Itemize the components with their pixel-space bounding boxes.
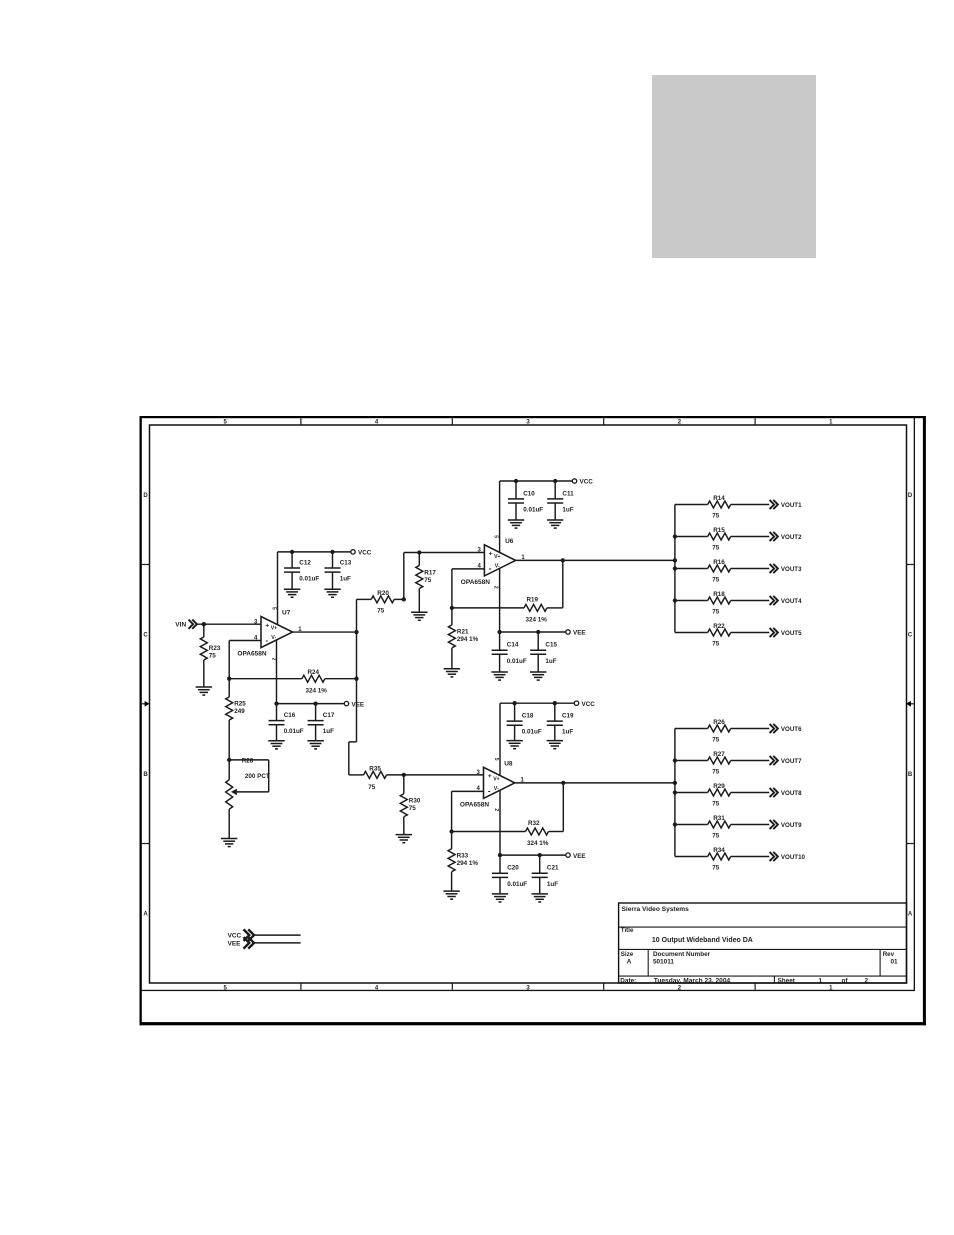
resistor R20 label <box>377 590 389 597</box>
svg-text:0.01uF: 0.01uF <box>507 658 527 665</box>
svg-text:1uF: 1uF <box>547 881 558 888</box>
junction R20/R17 branch <box>402 597 406 601</box>
junction upper bank <box>673 566 677 570</box>
resistor R27 label <box>713 751 725 758</box>
resistor R18 value <box>712 608 720 615</box>
capacitor C10 value <box>523 507 543 514</box>
resistor R22 label <box>713 623 725 630</box>
wire upper bank vertical <box>674 505 676 633</box>
connector VEE chevron <box>244 937 255 949</box>
svg-text:0.01uF: 0.01uF <box>523 507 543 514</box>
svg-text:U6: U6 <box>505 538 514 545</box>
svg-text:1uF: 1uF <box>545 658 556 665</box>
svg-text:VCC: VCC <box>582 701 596 708</box>
capacitor C15 <box>530 632 546 672</box>
svg-text:VCC: VCC <box>580 479 594 486</box>
op-amp U8 pin 4 label <box>477 786 481 792</box>
ground below C11 <box>547 520 563 528</box>
wire U6 VCC rail <box>500 480 573 482</box>
wire R35 to U8 pin 3 <box>404 774 484 776</box>
ground below C10 <box>508 520 524 528</box>
ground below R23 <box>196 687 212 695</box>
svg-text:OPA658N: OPA658N <box>461 579 490 586</box>
terminal VEE (U6) <box>566 630 570 634</box>
svg-text:5: 5 <box>270 607 276 610</box>
wire VEE stub <box>254 942 301 944</box>
capacitor C12 <box>284 552 300 589</box>
svg-text:75: 75 <box>712 768 720 775</box>
svg-text:75: 75 <box>712 800 720 807</box>
capacitor C21 value <box>547 881 558 888</box>
resistor R33 label <box>457 852 469 859</box>
wire U6 output <box>516 559 675 561</box>
svg-text:OPA658N: OPA658N <box>460 802 489 809</box>
svg-text:R14: R14 <box>713 495 725 502</box>
svg-text:75: 75 <box>712 608 720 615</box>
junction C21/VEE rail <box>538 853 542 857</box>
resistor R23 <box>200 624 207 687</box>
resistor R21 label <box>457 629 469 636</box>
resistor R34 <box>675 853 769 860</box>
capacitor C18 <box>507 703 523 740</box>
resistor R27 value <box>712 768 720 775</box>
svg-text:1uF: 1uF <box>323 728 334 735</box>
terminal VCC (U6) <box>572 479 576 483</box>
svg-text:Document Number: Document Number <box>653 951 711 958</box>
resistor R30 value <box>409 805 417 812</box>
svg-text:VEE: VEE <box>573 630 586 637</box>
ground below R21 <box>444 669 460 677</box>
op-amp U7 pin 3 label <box>254 619 258 625</box>
node VEE label (stub) <box>228 941 242 948</box>
resistor R29 label <box>713 783 725 790</box>
resistor R14 value <box>712 512 720 519</box>
op-amp U6 ref label <box>505 538 514 545</box>
svg-text:C: C <box>143 633 148 639</box>
node VOUT6 label <box>781 726 802 733</box>
wire U6 V- power <box>499 568 501 632</box>
wire U8 output <box>515 782 675 784</box>
svg-text:VEE: VEE <box>352 701 365 708</box>
connector VOUT8 chevron <box>770 788 778 797</box>
capacitor C15 label <box>545 642 557 649</box>
node VEE label (U8) <box>573 853 586 860</box>
capacitor C12 label <box>299 559 311 566</box>
node VOUT5 label <box>781 630 802 637</box>
resistor R30 label <box>409 797 421 804</box>
svg-text:C11: C11 <box>562 490 574 497</box>
junction R19/R21 <box>450 606 454 610</box>
svg-text:-: - <box>265 636 268 645</box>
capacitor C19 <box>547 703 563 740</box>
resistor R19 value <box>526 617 548 624</box>
junction U6 output/feedback <box>561 558 565 562</box>
svg-text:Title: Title <box>621 927 634 934</box>
resistor R31 label <box>713 815 725 822</box>
node VOUT2 label <box>781 534 802 541</box>
svg-text:D: D <box>143 493 148 499</box>
ground below C21 <box>532 894 548 902</box>
ground below R30 <box>396 835 412 843</box>
svg-text:1uF: 1uF <box>562 729 573 736</box>
node VOUT4 label <box>781 598 802 605</box>
capacitor C20 label <box>507 865 519 872</box>
connector VOUT6 chevron <box>770 724 778 733</box>
svg-text:R17: R17 <box>424 569 436 576</box>
op-amp U6 pin 2 label <box>492 586 498 589</box>
terminal VCC (U8) <box>574 701 578 705</box>
svg-text:R20: R20 <box>377 590 389 597</box>
junction R25/R28 <box>227 758 231 762</box>
ground below C20 <box>492 894 508 902</box>
capacitor C14 label <box>507 642 519 649</box>
wire U8 VCC rail <box>500 702 574 704</box>
svg-text:R30: R30 <box>409 797 421 804</box>
capacitor C11 label <box>562 490 574 497</box>
svg-text:324 1%: 324 1% <box>306 687 328 694</box>
svg-text:0.01uF: 0.01uF <box>299 576 319 583</box>
svg-text:R18: R18 <box>713 591 725 598</box>
connector VOUT3 chevron <box>770 564 778 573</box>
resistor R23 value <box>209 652 217 659</box>
resistor R15 label <box>713 527 725 534</box>
node VOUT3 label <box>781 566 802 573</box>
junction U8 output/bank <box>673 781 677 785</box>
svg-text:5: 5 <box>492 535 498 538</box>
resistor R20 value <box>377 608 385 615</box>
svg-text:1uF: 1uF <box>340 576 351 583</box>
svg-text:C15: C15 <box>545 642 557 649</box>
svg-text:294 1%: 294 1% <box>457 860 479 867</box>
resistor R15 <box>675 533 769 540</box>
svg-text:501011: 501011 <box>653 959 674 966</box>
resistor R19 label <box>527 596 539 603</box>
terminal VCC (U7) <box>351 550 355 554</box>
capacitor C17 <box>308 704 324 741</box>
op-amp U7 triangle <box>261 617 293 648</box>
op-amp U6 pin 1 label <box>521 555 525 561</box>
svg-text:75: 75 <box>712 512 720 519</box>
svg-text:200 PCT: 200 PCT <box>245 773 270 780</box>
wire lower bank vertical <box>674 729 676 857</box>
capacitor C11 value <box>562 507 573 514</box>
capacitor C10 label <box>523 490 535 497</box>
connector VOUT5 chevron <box>770 628 778 637</box>
capacitor C11 <box>547 481 563 520</box>
gray box <box>652 75 816 258</box>
svg-text:R15: R15 <box>713 527 725 534</box>
junction R35/R30 <box>402 773 406 777</box>
wire VCC stub <box>254 934 301 936</box>
ground below R17 <box>411 612 427 620</box>
op-amp U7 part label <box>237 651 266 658</box>
svg-text:B: B <box>908 772 913 778</box>
resistor R20 <box>357 596 404 603</box>
potentiometer R28 label <box>242 757 254 764</box>
op-amp U8 ref label <box>504 761 513 768</box>
svg-text:VOUT7: VOUT7 <box>781 758 802 765</box>
op-amp U8 pin 1 label <box>521 778 525 784</box>
svg-text:Tuesday, March 23, 2004: Tuesday, March 23, 2004 <box>654 977 731 984</box>
svg-text:75: 75 <box>424 577 432 584</box>
ground below R33 <box>443 891 459 899</box>
svg-text:VOUT4: VOUT4 <box>781 598 802 605</box>
resistor R34 label <box>713 847 725 854</box>
svg-text:75: 75 <box>712 864 720 871</box>
svg-text:VEE: VEE <box>228 941 242 948</box>
svg-text:R22: R22 <box>713 623 725 630</box>
svg-text:A: A <box>908 912 913 918</box>
svg-text:C12: C12 <box>299 559 311 566</box>
wire U7 V- power <box>276 639 278 703</box>
title block <box>619 903 907 984</box>
connector VCC chevron <box>244 929 255 941</box>
resistor R35 value <box>368 784 376 791</box>
svg-text:C21: C21 <box>547 865 559 872</box>
junction C13/VCC rail <box>330 550 334 554</box>
svg-text:C20: C20 <box>507 865 519 872</box>
junction lower bank <box>673 790 677 794</box>
svg-text:C19: C19 <box>562 713 574 720</box>
node VOUT10 label <box>781 854 806 861</box>
junction C10/VCC rail <box>514 479 518 483</box>
svg-text:R29: R29 <box>713 783 725 790</box>
svg-text:324 1%: 324 1% <box>526 617 548 624</box>
svg-text:+: + <box>488 773 492 780</box>
svg-text:V-: V- <box>494 786 499 792</box>
svg-text:OPA658N: OPA658N <box>237 651 266 658</box>
resistor R35 label <box>369 765 381 772</box>
svg-text:VOUT6: VOUT6 <box>781 726 802 733</box>
wire U7 VEE rail <box>277 703 345 705</box>
svg-text:R34: R34 <box>713 847 725 854</box>
junction U6 output/bank <box>673 558 677 562</box>
svg-text:C13: C13 <box>340 559 352 566</box>
svg-text:249: 249 <box>234 708 245 715</box>
junction R24/R25 <box>227 677 231 681</box>
capacitor C16 <box>269 704 285 741</box>
node VCC label (U6) <box>580 479 594 486</box>
svg-text:U8: U8 <box>504 761 513 768</box>
ground below C17 <box>307 741 323 749</box>
wire VIN to U7 pin 3 <box>197 623 261 625</box>
connector VOUT9 chevron <box>770 820 778 829</box>
resistor R22 <box>675 629 769 636</box>
svg-text:75: 75 <box>368 784 376 791</box>
node VCC label (U8) <box>582 701 596 708</box>
resistor R30 <box>400 775 407 835</box>
svg-text:1uF: 1uF <box>562 507 573 514</box>
svg-text:C16: C16 <box>284 712 296 719</box>
svg-text:2: 2 <box>493 808 499 811</box>
svg-text:10 Output Wideband Video DA: 10 Output Wideband Video DA <box>652 937 753 944</box>
resistor R14 <box>675 501 769 508</box>
resistor R26 label <box>713 719 725 726</box>
resistor R18 label <box>713 591 725 598</box>
potentiometer R28 <box>226 760 269 839</box>
ground below C18 <box>506 741 522 749</box>
wire U7 output vertical <box>349 599 357 775</box>
svg-text:R16: R16 <box>713 559 725 566</box>
capacitor C13 <box>325 552 341 589</box>
capacitor C17 value <box>323 728 334 735</box>
resistor R15 value <box>712 544 720 551</box>
svg-text:VOUT5: VOUT5 <box>781 630 802 637</box>
svg-text:VOUT3: VOUT3 <box>781 566 802 573</box>
svg-text:Rev: Rev <box>883 951 895 958</box>
resistor R21 value <box>457 636 479 643</box>
node VOUT8 label <box>781 790 802 797</box>
junction R17 top <box>417 550 421 554</box>
terminal VEE (U8) <box>566 853 570 857</box>
op-amp U8 triangle <box>484 767 515 798</box>
svg-text:75: 75 <box>712 832 720 839</box>
svg-text:C17: C17 <box>323 712 335 719</box>
potentiometer R28 value <box>245 773 270 780</box>
resistor R17 value <box>424 577 432 584</box>
svg-text:2: 2 <box>865 977 869 984</box>
capacitor C13 value <box>340 576 351 583</box>
op-amp U7 pin 5 label <box>270 607 276 610</box>
junction U7 output <box>354 630 358 634</box>
resistor R24 value <box>306 687 328 694</box>
resistor R17 label <box>424 569 436 576</box>
resistor R18 <box>675 597 769 604</box>
resistor R34 value <box>712 864 720 871</box>
junction lower bank <box>673 822 677 826</box>
svg-text:C14: C14 <box>507 642 519 649</box>
junction U8 output/feedback <box>561 781 565 785</box>
node VOUT7 label <box>781 758 802 765</box>
svg-text:-: - <box>489 564 492 573</box>
resistor R33 value <box>457 860 479 867</box>
connector VOUT4 chevron <box>770 596 778 605</box>
ground below C12 <box>284 589 300 597</box>
svg-text:Sierra Video Systems: Sierra Video Systems <box>622 906 690 913</box>
svg-text:C18: C18 <box>522 713 534 720</box>
svg-text:75: 75 <box>209 652 217 659</box>
wire U6 V+ power <box>499 481 501 552</box>
svg-text:75: 75 <box>377 608 385 615</box>
ground below C13 <box>324 589 340 597</box>
connector VOUT10 chevron <box>770 852 778 861</box>
resistor R23 label <box>209 645 221 652</box>
svg-text:B: B <box>143 772 148 778</box>
svg-text:-: - <box>488 787 491 796</box>
resistor R25 value <box>234 708 245 715</box>
resistor R22 value <box>712 640 720 647</box>
svg-text:0.01uF: 0.01uF <box>507 881 527 888</box>
svg-text:R25: R25 <box>234 700 246 707</box>
op-amp U8 pin 5 label <box>493 758 499 761</box>
resistor R25 <box>226 679 233 760</box>
wire U7 V+ power <box>277 552 279 625</box>
capacitor C20 <box>492 855 508 894</box>
capacitor C16 value <box>284 728 304 735</box>
capacitor C19 label <box>562 713 574 720</box>
svg-text:2: 2 <box>270 658 276 661</box>
svg-text:A: A <box>627 958 632 965</box>
op-amp U6 pin 5 label <box>492 535 498 538</box>
ground below C16 <box>268 741 284 749</box>
svg-text:VOUT10: VOUT10 <box>781 854 806 861</box>
svg-text:324 1%: 324 1% <box>527 840 549 847</box>
op-amp U8 pin 3 label <box>477 770 481 776</box>
svg-text:VOUT8: VOUT8 <box>781 790 802 797</box>
node VIN label <box>175 622 186 629</box>
svg-text:V+: V+ <box>493 776 500 782</box>
resistor R24 label <box>308 669 320 676</box>
node VOUT9 label <box>781 822 802 829</box>
svg-text:R32: R32 <box>528 820 540 827</box>
ground below C14 <box>491 672 507 680</box>
capacitor C20 value <box>507 881 527 888</box>
wire U7 pin 4 feedback <box>229 641 261 679</box>
svg-text:1: 1 <box>819 977 823 984</box>
resistor R25 label <box>234 700 246 707</box>
node VCC label (stub) <box>228 933 242 940</box>
svg-text:C10: C10 <box>523 490 535 497</box>
junction lower bank <box>673 758 677 762</box>
svg-text:VEE: VEE <box>573 853 586 860</box>
svg-text:Date:: Date: <box>620 977 636 984</box>
wire U8 V+ power <box>499 703 501 775</box>
capacitor C14 value <box>507 658 527 665</box>
resistor R16 label <box>713 559 725 566</box>
junction VIN/R23 <box>202 622 206 626</box>
op-amp U8 pin 2 label <box>493 808 499 811</box>
junction R24/output <box>354 677 358 681</box>
junction R32/R33 <box>449 829 453 833</box>
svg-text:2: 2 <box>492 586 498 589</box>
svg-text:R26: R26 <box>713 719 725 726</box>
op-amp U7 pin 4 label <box>254 635 258 641</box>
connector VOUT1 chevron <box>770 500 778 509</box>
svg-text:R35: R35 <box>369 765 381 772</box>
svg-text:75: 75 <box>409 805 417 812</box>
resistor R33 <box>448 832 455 892</box>
ground below C19 <box>547 741 563 749</box>
capacitor C14 <box>492 632 508 672</box>
op-amp U6 pin 4 label <box>477 564 481 570</box>
resistor R29 <box>675 789 769 796</box>
resistor R31 <box>675 821 769 828</box>
capacitor C13 label <box>340 559 352 566</box>
resistor R31 value <box>712 832 720 839</box>
svg-text:VIN: VIN <box>175 622 186 629</box>
resistor R29 value <box>712 800 720 807</box>
wire U8 pin 4 feedback <box>452 791 484 831</box>
junction C20/VEE rail <box>498 853 502 857</box>
op-amp U8 part label <box>460 802 489 809</box>
svg-text:Size: Size <box>621 951 634 958</box>
svg-text:R31: R31 <box>713 815 725 822</box>
junction upper bank <box>673 598 677 602</box>
wire R20 to U6 pin 3 <box>404 553 485 600</box>
svg-text:01: 01 <box>891 959 899 966</box>
op-amp U7 pin 1 label <box>298 627 302 633</box>
svg-text:VCC: VCC <box>358 550 372 557</box>
wire U7 VCC rail <box>278 551 351 553</box>
resistor R32 label <box>528 820 540 827</box>
resistor R27 <box>675 757 769 764</box>
svg-text:VOUT9: VOUT9 <box>781 822 802 829</box>
svg-text:C: C <box>908 633 913 639</box>
resistor R14 label <box>713 495 725 502</box>
svg-text:VOUT1: VOUT1 <box>781 502 802 509</box>
resistor R32 value <box>527 840 549 847</box>
wire U8 VEE rail <box>500 854 566 856</box>
